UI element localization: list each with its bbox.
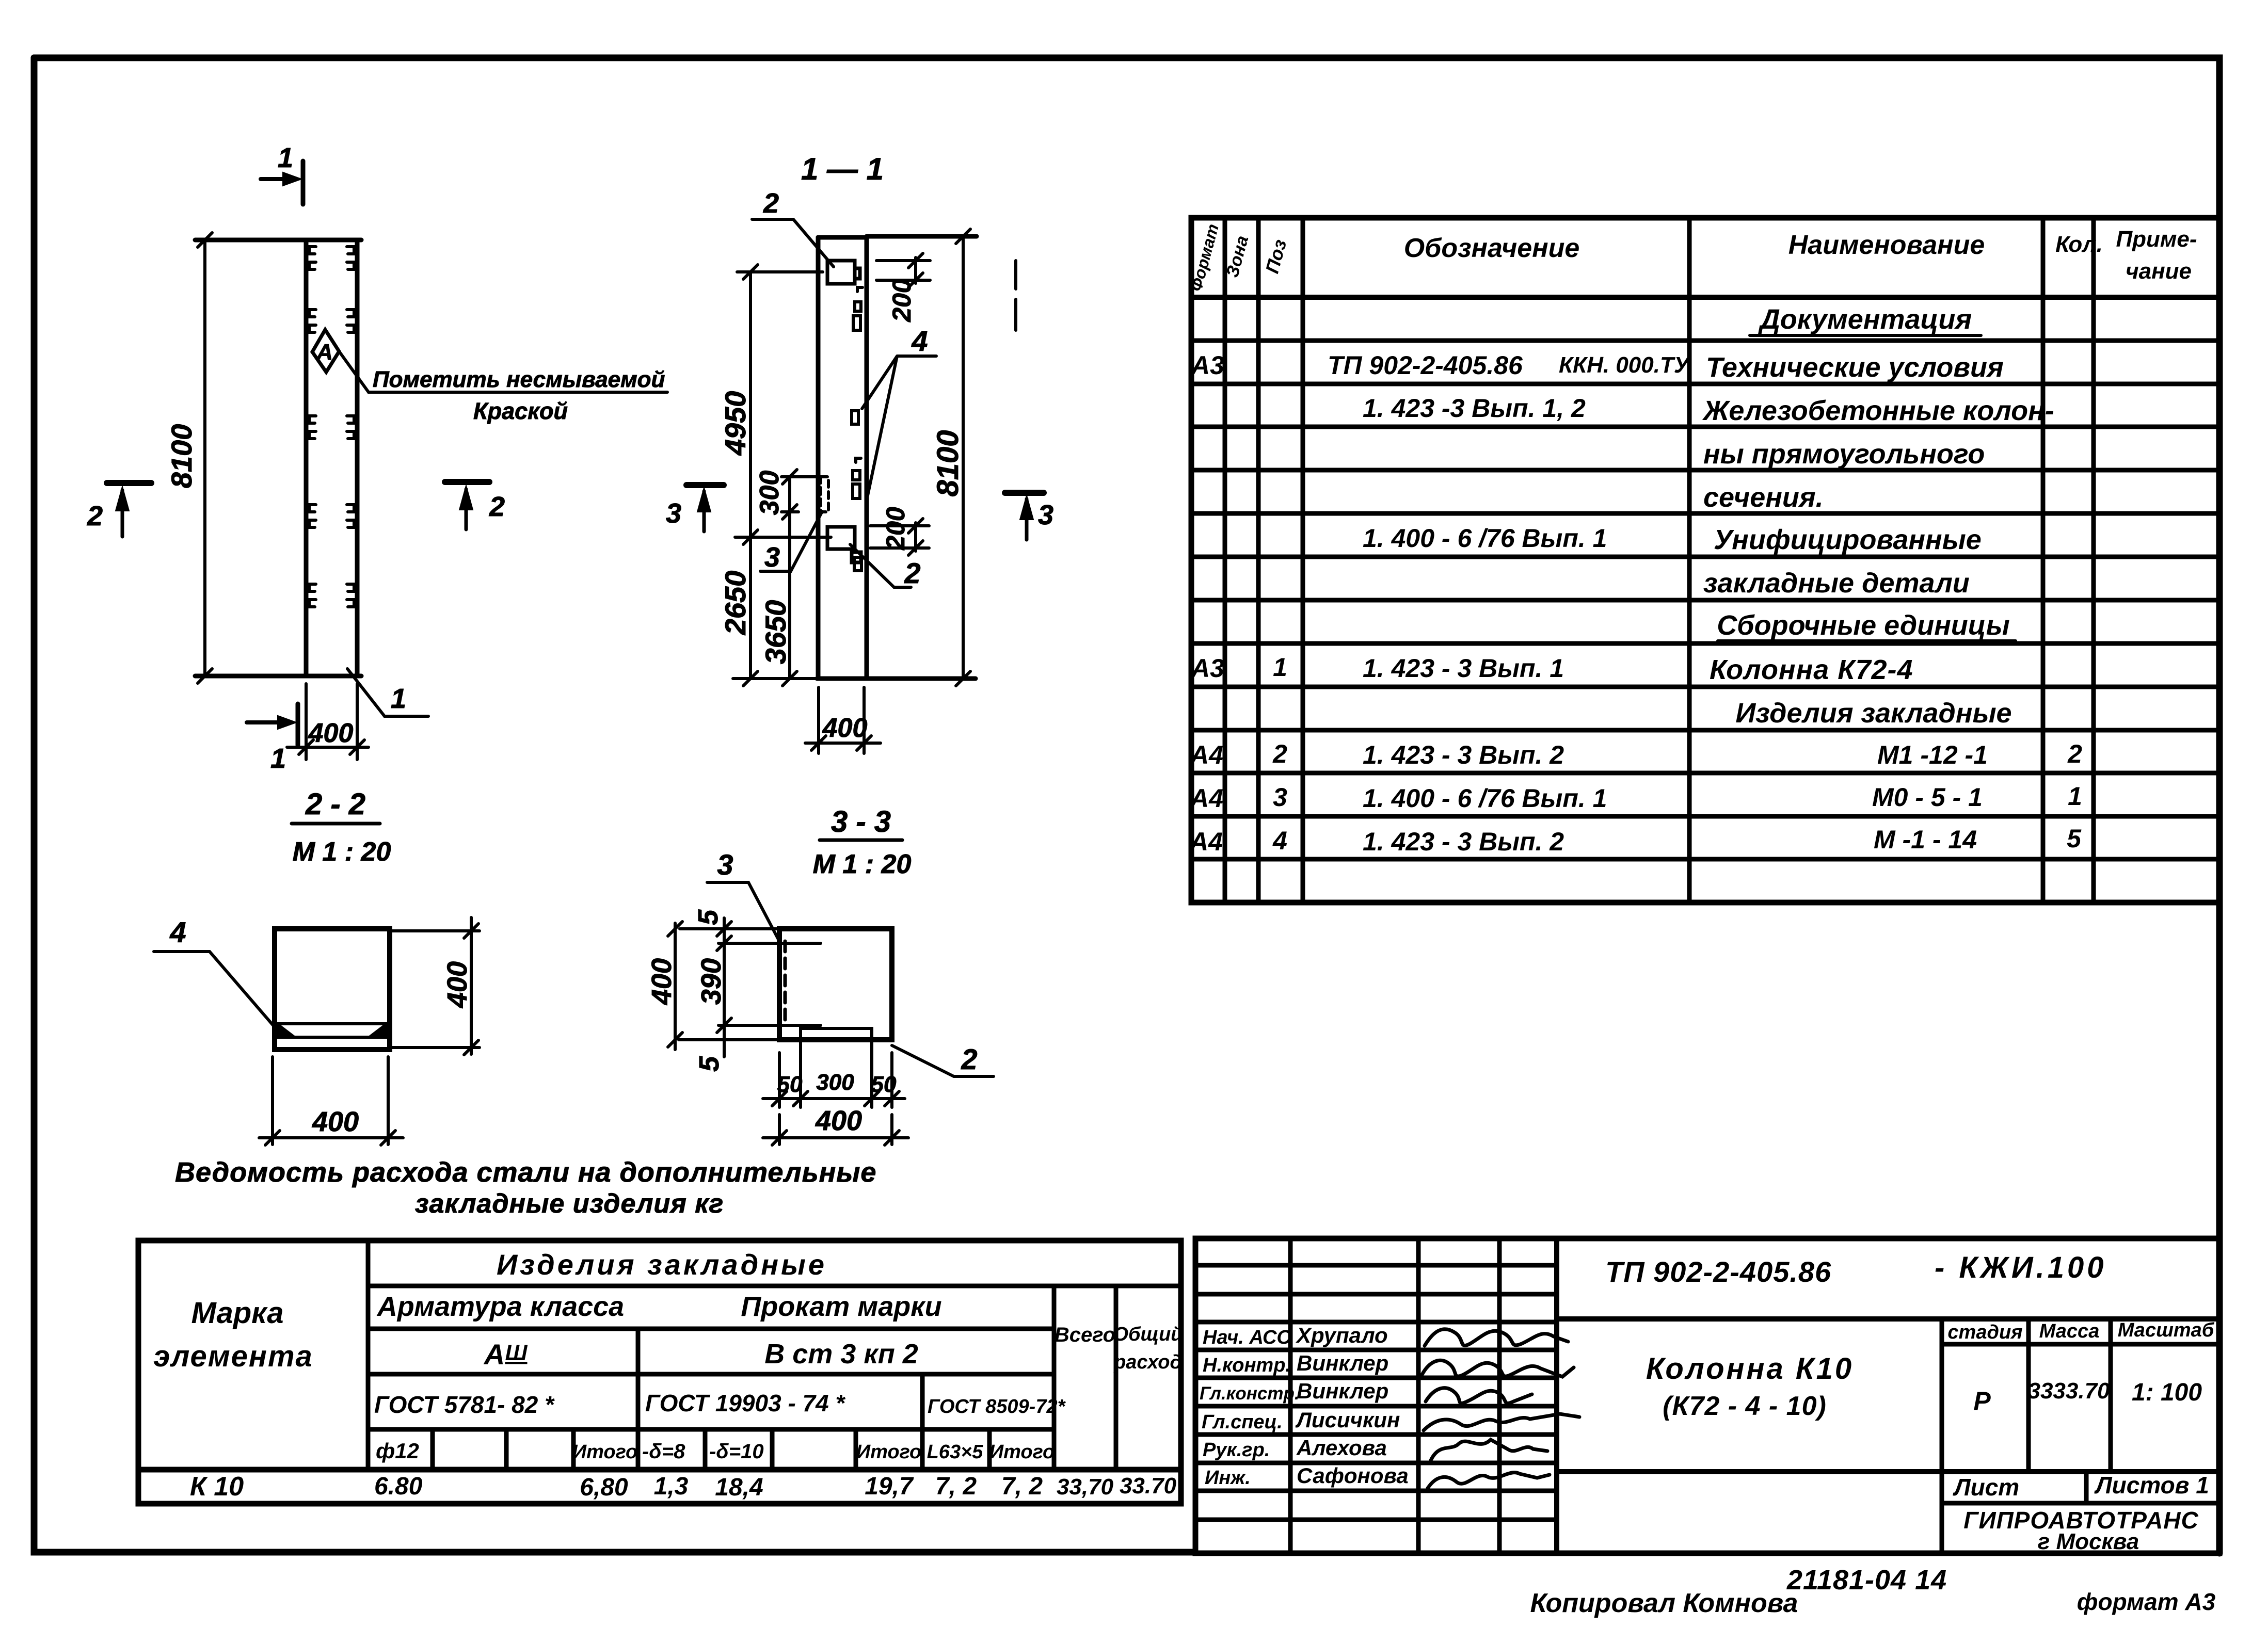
- svg-text:2 - 2: 2 - 2: [305, 787, 365, 821]
- svg-text:ТП 902-2-405.86: ТП 902-2-405.86: [1328, 351, 1523, 380]
- svg-text:1. 400 - 6 /76 Вып. 1: 1. 400 - 6 /76 Вып. 1: [1363, 784, 1607, 813]
- vertical grid: [1223, 218, 1227, 903]
- dimension 400 bottom: [763, 1115, 908, 1145]
- svg-text:М 1 : 20: М 1 : 20: [293, 837, 391, 867]
- svg-text:1. 423 - 3 Вып. 2: 1. 423 - 3 Вып. 2: [1363, 827, 1564, 856]
- svg-text:Алехова: Алехова: [1296, 1436, 1387, 1460]
- horizontal grid: [368, 1284, 1181, 1288]
- vertical grid: [366, 1241, 371, 1470]
- svg-text:5: 5: [693, 909, 724, 925]
- svg-text:Р: Р: [1973, 1387, 1991, 1415]
- dimension 400 bottom: [287, 684, 369, 760]
- svg-text:Сборочные единицы: Сборочные единицы: [1717, 610, 2010, 641]
- svg-text:300: 300: [755, 471, 785, 516]
- svg-text:1 — 1: 1 — 1: [801, 152, 884, 186]
- svg-text:2: 2: [904, 557, 920, 589]
- svg-text:Листов 1: Листов 1: [2094, 1472, 2209, 1499]
- svg-text:1: 1: [2068, 782, 2082, 811]
- rows content: [1189, 304, 2082, 856]
- svg-text:Железобетонные колон-: Железобетонные колон-: [1702, 395, 2054, 426]
- svg-text:2: 2: [1272, 739, 1287, 768]
- svg-text:М1 -12 -1: М1 -12 -1: [1877, 740, 1988, 769]
- section mark 3 left: [686, 485, 724, 531]
- cross-section 3-3 square: [646, 848, 994, 1145]
- svg-text:33.70: 33.70: [1120, 1473, 1177, 1499]
- svg-text:Ведомость расхода стали н: Ведомость расхода стали на дополнительны…: [175, 1157, 876, 1188]
- svg-text:19,7: 19,7: [865, 1473, 914, 1500]
- svg-text:Копировал Комнова: Копировал Комнова: [1530, 1588, 1798, 1618]
- svg-text:Масса: Масса: [2039, 1320, 2100, 1342]
- svg-text:А4: А4: [1189, 740, 1223, 769]
- svg-text:ф12: ф12: [376, 1439, 419, 1463]
- section mark 2 right: [445, 482, 489, 529]
- svg-text:400: 400: [822, 713, 868, 743]
- column section view 1-1: [666, 152, 1053, 879]
- section mark 2 left: [107, 483, 151, 537]
- dimension 390: [723, 954, 726, 1025]
- signatures: [1422, 1329, 1579, 1488]
- svg-text:Всего: Всего: [1055, 1324, 1115, 1346]
- svg-text:Инж.: Инж.: [1205, 1467, 1251, 1489]
- svg-text:А: А: [316, 340, 333, 365]
- left signature grid rows: [1195, 1263, 1557, 1268]
- svg-text:-δ=10: -δ=10: [709, 1440, 764, 1463]
- dimensions 50 300 50: [763, 1039, 905, 1107]
- svg-text:Нач. АСО: Нач. АСО: [1203, 1327, 1292, 1348]
- svg-text:Марка: Марка: [191, 1296, 283, 1330]
- doc number: [1200, 1251, 2215, 1554]
- svg-text:1,3: 1,3: [654, 1473, 689, 1500]
- svg-text:1. 423 -3 Вып. 1, 2: 1. 423 -3 Вып. 1, 2: [1363, 394, 1586, 423]
- svg-text:Прокат марки: Прокат марки: [741, 1291, 941, 1322]
- svg-text:300: 300: [816, 1070, 854, 1095]
- svg-text:ККН. 000.ТУ: ККН. 000.ТУ: [1559, 352, 1691, 378]
- dimension 5 top: [717, 918, 821, 954]
- svg-text:Наименование: Наименование: [1788, 230, 1985, 260]
- svg-text:- КЖИ.100: - КЖИ.100: [1935, 1251, 2106, 1284]
- svg-text:3333.70: 3333.70: [2027, 1378, 2110, 1404]
- svg-text:3: 3: [1273, 783, 1287, 812]
- svg-text:3 - 3: 3 - 3: [831, 805, 891, 839]
- svg-text:1: 100: 1: 100: [2132, 1379, 2202, 1406]
- svg-text:ТП 902-2-405.86: ТП 902-2-405.86: [1605, 1255, 1831, 1288]
- svg-text:390: 390: [696, 958, 727, 1005]
- svg-text:2: 2: [961, 1043, 977, 1075]
- horizontal grid: [1191, 295, 2219, 300]
- dimension 400 bottom: [259, 1057, 403, 1145]
- svg-text:Хрупало: Хрупало: [1296, 1323, 1388, 1347]
- svg-text:4: 4: [169, 916, 186, 948]
- svg-text:4: 4: [1272, 826, 1287, 855]
- svg-text:Гл.спец.: Гл.спец.: [1202, 1411, 1283, 1433]
- svg-text:1: 1: [391, 683, 406, 714]
- dimension 200 top: [876, 253, 930, 287]
- svg-text:400: 400: [815, 1105, 862, 1136]
- embedded plate M0 middle dashed (pos 3): [821, 477, 828, 512]
- svg-text:Пометить несмываемой: Пометить несмываемой: [373, 367, 665, 392]
- svg-text:А: А: [483, 1338, 505, 1371]
- svg-text:Итого: Итого: [572, 1441, 637, 1463]
- embedded plate pos 3 dashed: [784, 941, 787, 1025]
- svg-text:В ст 3 кп 2: В ст 3 кп 2: [764, 1339, 918, 1370]
- svg-text:г Москва: г Москва: [2038, 1529, 2139, 1554]
- svg-text:Кол.: Кол.: [2055, 232, 2103, 257]
- svg-text:Рук.гр.: Рук.гр.: [1203, 1439, 1270, 1461]
- leader to paint note: [339, 351, 667, 392]
- svg-text:А4: А4: [1189, 784, 1223, 813]
- svg-text:200: 200: [881, 507, 910, 551]
- footer annotations: [1530, 1565, 2216, 1618]
- svg-text:2: 2: [489, 491, 505, 522]
- svg-text:4950: 4950: [719, 391, 752, 456]
- svg-text:21181-04 14: 21181-04 14: [1786, 1565, 1947, 1596]
- svg-text:1: 1: [270, 743, 286, 774]
- column elevation view 2-2: [87, 142, 667, 867]
- svg-text:формат А3: формат А3: [2077, 1588, 2216, 1615]
- svg-text:1: 1: [278, 142, 293, 173]
- lifting hooks right edge: [347, 247, 354, 607]
- table frame: [138, 1241, 1181, 1504]
- top/bottom edge extensions: [679, 929, 779, 1040]
- svg-text:Унифицированные: Унифицированные: [1714, 524, 1982, 555]
- section mark 3 right: [1005, 493, 1044, 540]
- dimension 4950: [737, 265, 823, 544]
- svg-text:8100: 8100: [931, 430, 965, 496]
- dimension 5 bottom: [723, 1025, 726, 1057]
- svg-text:5: 5: [694, 1056, 725, 1072]
- svg-text:50: 50: [871, 1072, 897, 1097]
- svg-text:18,4: 18,4: [715, 1474, 763, 1501]
- embedded plate M1 bottom (pos 2): [827, 527, 861, 562]
- section mark 1 top: [261, 161, 303, 204]
- svg-text:А3: А3: [1190, 654, 1224, 683]
- dimension 400 left: [668, 922, 682, 1050]
- svg-text:ны прямоугольного: ны прямоугольного: [1703, 439, 1985, 470]
- lifting hooks left edge: [309, 247, 316, 607]
- dimension 200 bottom: [870, 519, 929, 555]
- svg-text:33,70: 33,70: [1057, 1474, 1114, 1500]
- svg-text:М 1 : 20: М 1 : 20: [813, 849, 912, 879]
- header texts: [153, 1248, 1183, 1502]
- cut trace dashes: [1014, 261, 1017, 330]
- dimension 2650: [733, 537, 831, 686]
- svg-text:Масштаб: Масштаб: [2118, 1319, 2215, 1341]
- svg-text:2: 2: [87, 501, 103, 531]
- svg-text:2: 2: [763, 188, 779, 219]
- svg-text:5: 5: [2067, 824, 2082, 853]
- leader pos 2: [892, 1045, 994, 1076]
- svg-text:3: 3: [1038, 500, 1053, 530]
- svg-text:Краской: Краской: [473, 398, 568, 424]
- position leader 1: [347, 669, 428, 716]
- svg-text:L63×5: L63×5: [927, 1441, 984, 1463]
- mark A diamond: [312, 330, 339, 372]
- svg-text:Документация: Документация: [1758, 304, 1972, 335]
- svg-text:7, 2: 7, 2: [1001, 1473, 1043, 1500]
- svg-text:Технические условия: Технические условия: [1706, 352, 2004, 383]
- svg-text:3: 3: [764, 542, 780, 573]
- svg-text:7, 2: 7, 2: [935, 1473, 977, 1500]
- embedded plate pos 4 bottom: [277, 1024, 387, 1037]
- dimension 300: [781, 470, 825, 519]
- svg-text:Лисичкин: Лисичкин: [1295, 1408, 1400, 1432]
- embedded plate M1 top (pos 2): [827, 261, 860, 284]
- column body: [817, 236, 977, 679]
- svg-text:Сафонова: Сафонова: [1297, 1463, 1409, 1488]
- header texts: [1187, 222, 2197, 293]
- dimension 8100 right: [956, 229, 970, 686]
- svg-text:ГОСТ 5781- 82 *: ГОСТ 5781- 82 *: [374, 1391, 555, 1418]
- left signature grid verticals: [1288, 1238, 1293, 1553]
- cross-section 2-2 square: [154, 916, 480, 1145]
- svg-text:Ш: Ш: [505, 1340, 528, 1365]
- dimension 400 bottom: [805, 687, 881, 753]
- column body K10: [195, 240, 361, 676]
- svg-text:6,80: 6,80: [580, 1474, 628, 1501]
- svg-text:3650: 3650: [759, 600, 792, 665]
- leader pos 2 bottom: [850, 544, 911, 587]
- svg-text:стадия: стадия: [1947, 1322, 2022, 1343]
- svg-text:расход: расход: [1113, 1351, 1182, 1373]
- svg-text:2650: 2650: [719, 571, 752, 636]
- svg-text:чание: чание: [2126, 259, 2192, 284]
- svg-text:элемента: элемента: [153, 1340, 313, 1373]
- svg-text:1. 423 - 3 Вып. 2: 1. 423 - 3 Вып. 2: [1363, 740, 1564, 769]
- svg-text:закладные детали: закладные детали: [1703, 568, 1970, 599]
- svg-text:1: 1: [1273, 653, 1287, 682]
- svg-text:1. 423 - 3 Вып. 1: 1. 423 - 3 Вып. 1: [1363, 654, 1564, 683]
- svg-text:К 10: К 10: [190, 1472, 244, 1502]
- column outline: [779, 929, 892, 1040]
- specification table: [1187, 218, 2219, 903]
- svg-text:М0 - 5 - 1: М0 - 5 - 1: [1872, 783, 1983, 812]
- svg-text:Изделия закладные: Изделия закладные: [1735, 698, 2011, 729]
- leader pos 2 top: [752, 219, 834, 267]
- svg-text:Итого: Итого: [856, 1441, 921, 1463]
- column outline: [275, 929, 390, 1050]
- svg-text:Н.контр.: Н.контр.: [1203, 1355, 1291, 1376]
- svg-text:Колонна К72-4: Колонна К72-4: [1710, 654, 1913, 685]
- svg-text:3: 3: [666, 498, 681, 529]
- svg-text:400: 400: [312, 1106, 359, 1137]
- svg-text:8100: 8100: [165, 424, 198, 489]
- dimension 8100: [198, 233, 212, 683]
- svg-text:400: 400: [442, 961, 473, 1008]
- svg-text:200: 200: [887, 279, 916, 323]
- svg-text:Лист: Лист: [1953, 1474, 2019, 1501]
- svg-text:Итого: Итого: [989, 1441, 1055, 1463]
- svg-text:4: 4: [911, 325, 928, 357]
- svg-text:закладные изделия кг: закладные изделия кг: [415, 1189, 724, 1219]
- svg-text:сечения.: сечения.: [1703, 482, 1824, 513]
- svg-text:400: 400: [646, 958, 677, 1005]
- leader pos 3: [760, 511, 822, 571]
- svg-text:Обозначение: Обозначение: [1404, 233, 1580, 263]
- underlines: [1750, 334, 1981, 337]
- title block: [1195, 1238, 2219, 1554]
- svg-text:А3: А3: [1190, 351, 1224, 380]
- svg-text:1. 400 - 6 /76 Вып. 1: 1. 400 - 6 /76 Вып. 1: [1363, 524, 1607, 553]
- dimension 3650: [788, 512, 791, 679]
- svg-text:Гл.констр.: Гл.констр.: [1200, 1383, 1300, 1404]
- embedded plate pos 2 bottom: [801, 1028, 872, 1039]
- svg-text:А4: А4: [1189, 827, 1223, 856]
- leader pos 4: [862, 356, 936, 498]
- svg-text:400: 400: [308, 718, 354, 748]
- svg-text:(К72 - 4 - 10): (К72 - 4 - 10): [1663, 1391, 1827, 1421]
- svg-text:ГОСТ 19903 - 74 *: ГОСТ 19903 - 74 *: [645, 1390, 845, 1416]
- section mark 1 bottom: [247, 704, 298, 745]
- svg-text:-δ=8: -δ=8: [642, 1440, 685, 1463]
- svg-text:6.80: 6.80: [374, 1473, 423, 1500]
- svg-text:Винклер: Винклер: [1297, 1379, 1388, 1403]
- svg-text:Приме-: Приме-: [2116, 227, 2197, 252]
- svg-text:50: 50: [777, 1072, 803, 1097]
- right part structure: [1557, 1316, 2219, 1322]
- dimension 400 right: [390, 917, 480, 1055]
- svg-text:М -1 - 14: М -1 - 14: [1874, 825, 1977, 854]
- svg-text:Общий: Общий: [1113, 1324, 1183, 1345]
- svg-text:Колонна К10: Колонна К10: [1646, 1352, 1854, 1386]
- steel consumption table: [138, 1241, 1183, 1504]
- svg-text:Изделия закладные: Изделия закладные: [497, 1248, 827, 1281]
- svg-text:Арматура класса: Арматура класса: [376, 1291, 624, 1322]
- embedded items pos 4 hooks: [852, 287, 863, 571]
- svg-text:2: 2: [2067, 739, 2082, 768]
- svg-text:3: 3: [717, 848, 733, 881]
- svg-text:ГОСТ 8509-72*: ГОСТ 8509-72*: [928, 1396, 1066, 1417]
- leader pos 4: [154, 952, 274, 1026]
- svg-text:Винклер: Винклер: [1297, 1351, 1388, 1375]
- leader pos 3: [707, 882, 780, 943]
